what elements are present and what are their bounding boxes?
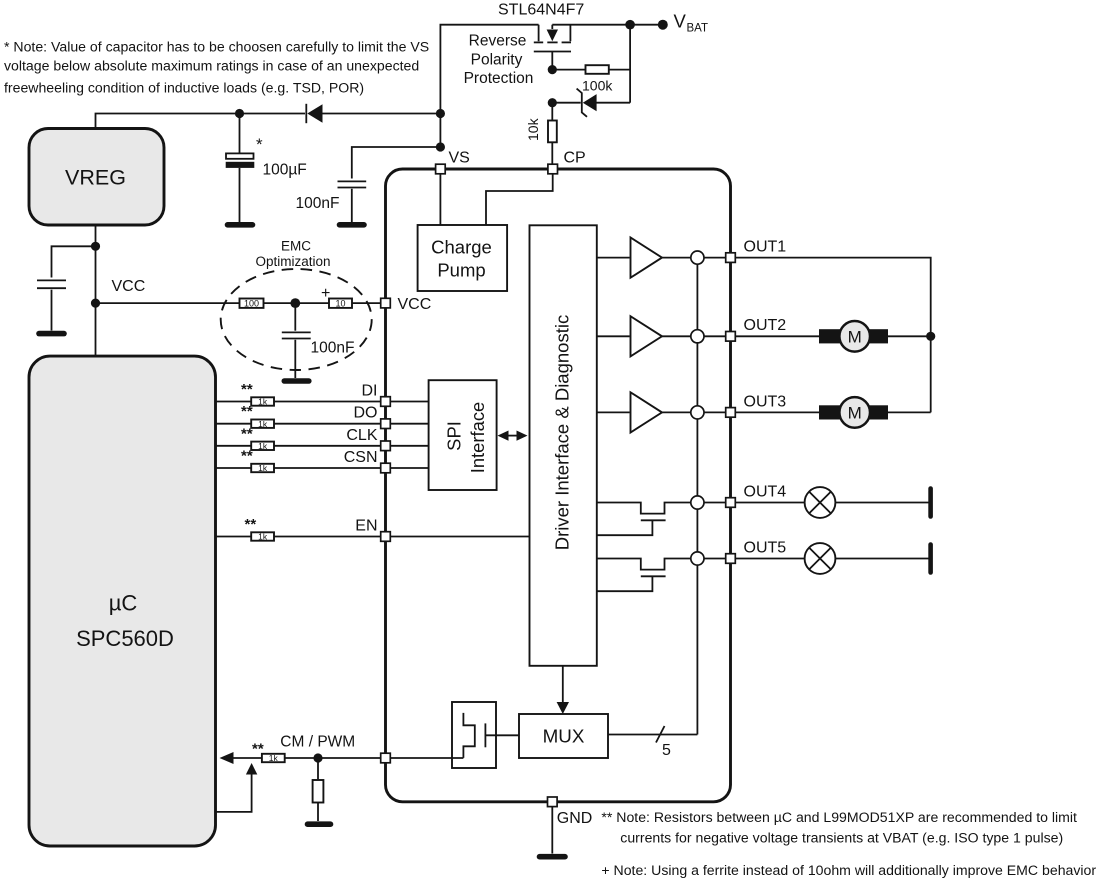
op-amp U1 main IC L99MOD51XP outline [386,169,731,802]
block SPI Interface [429,380,497,490]
svg-text:**: ** [252,741,264,758]
svg-text:VCC: VCC [112,278,146,295]
wire OUT2 circle to pin [704,335,726,337]
svg-text:+ Note: Using a ferrite instea: + Note: Using a ferrite instead of 10ohm… [601,862,1096,878]
svg-text:CLK: CLK [346,427,377,444]
svg-text:Charge: Charge [431,237,492,258]
svg-text:CSN: CSN [344,449,378,466]
block Driver Interface & Diagnostic [530,225,597,666]
diode Z1 zener [552,89,630,117]
svg-text:* Note: Value of capacitor has: * Note: Value of capacitor has to be cho… [4,39,429,55]
junction node VCC cap tap [91,242,100,251]
wire OUT5 circle to pin [704,558,726,560]
svg-text:STL64N4F7: STL64N4F7 [498,2,584,19]
junction node gate/R1 [548,65,557,74]
wire VS column up [440,25,538,147]
svg-text:OUT3: OUT3 [744,393,787,410]
svg-text:VCC: VCC [398,296,432,313]
label V_BAT [674,11,709,35]
svg-text:M: M [848,403,862,422]
capacitor C1 100uF [226,114,255,223]
lamp L1 (OUT4) [805,487,836,518]
block VREG [29,129,164,226]
ground (GND pin) [540,854,566,860]
ground (VCC cap) [39,331,64,337]
resistor R1 100k [552,65,630,74]
wire to R4 [295,302,329,304]
svg-text:Protection: Protection [464,70,534,87]
ground (100uF) [228,222,253,228]
pin EN [355,518,390,542]
wire lamp L2 to terminal [835,558,928,560]
transistor Q1 reverse polarity MOSFET [534,25,571,70]
node OUT2 monitor circle [691,330,704,343]
note: VS capacitor note text [4,39,429,96]
node OUT4 monitor circle [691,496,704,509]
wire OUT5 external [735,558,804,560]
pin CLK [346,427,390,451]
svg-text:Interface: Interface [467,402,488,474]
motor M2 (OUT3) [819,397,888,428]
svg-text:EMC: EMC [281,239,311,254]
wire diode to VS column [323,113,441,115]
svg-text:Driver Interface & Diagnostic: Driver Interface & Diagnostic [552,315,573,550]
svg-text:OUT5: OUT5 [744,539,787,556]
wire OUT3 external [735,411,820,413]
pin CP [548,150,586,174]
pin VS [436,150,470,174]
svg-text:EN: EN [355,518,377,535]
svg-text:V: V [674,11,687,32]
pin OUT3 [726,393,787,417]
EMC optimization dashed ellipse [221,269,372,370]
arrow into uC (CM/PWM) [220,752,262,764]
buffer driver OUT2 [597,316,691,356]
node OUT1 monitor circle [691,251,704,264]
wire M1 to OUT1 rail [888,335,931,337]
resistor R8 1k (CSN line) [216,448,381,474]
svg-text:currents for negative voltage: currents for negative voltage transients… [620,829,1063,845]
junction node zener [548,98,557,107]
svg-text:Pump: Pump [437,260,485,281]
junction node VS top [436,109,445,118]
svg-text:10: 10 [335,298,345,308]
svg-text:MUX: MUX [543,726,585,747]
resistor R5 1k (DI line) [216,381,381,407]
svg-text:OUT2: OUT2 [744,317,787,334]
resistor R10 1k (CM/PWM) [252,741,381,764]
transistor Q3 low-side OUT5 [597,559,691,592]
svg-text:freewheeling condition of indu: freewheeling condition of inductive load… [4,80,364,96]
junction node VBAT branch [625,20,635,30]
wire CM/PWM pin to sense box [390,757,463,759]
resistor R4 10 [329,298,381,308]
svg-text:1k: 1k [258,419,268,429]
label EMC Optimization [255,239,330,270]
svg-text:100nF: 100nF [311,340,355,357]
block Charge Pump [418,225,508,291]
svg-text:CM / PWM: CM / PWM [280,734,355,751]
wire uC feedback with up arrow [216,763,258,812]
svg-text:SPC560D: SPC560D [76,626,174,651]
pin CM/PWM [280,734,390,763]
wire OUT2 external [735,335,820,337]
pin DO [354,405,391,429]
wire GND pin down [551,807,553,854]
svg-text:100µF: 100µF [263,162,307,179]
svg-text:100k: 100k [582,78,613,94]
wire SPI to Driver double arrow [498,431,528,441]
svg-text:**: ** [241,381,253,398]
buffer driver OUT1 [597,238,691,278]
svg-text:VREG: VREG [65,166,126,190]
ground (CM/PWM pulldown) [308,821,331,827]
svg-text:Optimization: Optimization [255,254,330,269]
junction node 100uF tap [235,109,244,118]
svg-text:CP: CP [564,150,586,167]
pin GND [548,797,593,827]
svg-text:BAT: BAT [687,23,709,35]
terminal bar (OUT5) [928,545,933,573]
junction node CM/PWM [313,753,322,762]
buffer driver OUT3 [597,392,691,432]
svg-text:100: 100 [244,298,259,308]
block uC SPC560D [29,356,216,846]
junction node EMC cap [290,298,300,308]
resistor R2 10k [548,103,557,165]
svg-text:**: ** [241,448,253,465]
junction node OUT2/OUT1 rail [926,332,935,341]
svg-text:VS: VS [449,150,470,167]
wire VREG bottom to uC [95,225,97,356]
pin CSN [344,449,391,473]
note: resistor note text [601,809,1096,878]
svg-text:DI: DI [362,383,378,400]
wire monitor bus vertical [696,264,698,734]
svg-text:M: M [848,327,862,346]
terminal bar (OUT4) [928,489,933,517]
wire CP pin to charge pump [486,174,553,225]
wire CSN to SPI box [390,467,428,469]
wire MUX to monitor bus [608,734,697,736]
resistor R7 1k (CLK line) [216,425,381,451]
svg-text:100nF: 100nF [296,195,340,212]
resistor R9 1k (EN line) [216,516,381,542]
svg-text:Polarity: Polarity [471,52,523,69]
lamp L2 (OUT5) [805,543,836,574]
junction node VS branch [436,142,445,151]
wire Driver to MUX arrow [557,666,569,714]
motor M1 (OUT2) [819,321,888,352]
wire OUT4 external [735,502,804,504]
label Reverse Polarity Protection [464,33,534,88]
wire lamp L1 to terminal [835,502,928,504]
svg-text:1k: 1k [258,532,268,542]
node OUT5 monitor circle [691,552,704,565]
resistor R6 1k (DO line) [216,403,381,429]
svg-text:10k: 10k [525,117,541,141]
block MUX [519,714,608,758]
wire OUT1 circle to pin [704,257,726,259]
wire CLK to SPI box [390,445,428,447]
wire OUT3 circle to pin [704,411,726,413]
capacitor C4 100nF (EMC) [282,303,311,378]
svg-text:SPI: SPI [444,421,465,451]
pin OUT4 [726,483,787,507]
wire MOSFET source to VBAT [552,24,663,26]
bus width slash 5 [656,726,671,759]
node VBAT terminal [658,20,668,30]
transistor Q4 current monitor sense [452,702,519,768]
svg-text:OUT1: OUT1 [744,239,787,256]
svg-text:** Note: Resistors between µC: ** Note: Resistors between µC and L99MOD… [601,809,1077,825]
svg-text:*: * [256,135,263,154]
svg-text:Reverse: Reverse [469,33,527,50]
wire VREG top to diode [96,114,306,129]
svg-text:DO: DO [354,405,378,422]
pin OUT1 [726,239,787,263]
wire VBAT branch down [629,25,631,103]
svg-text:1k: 1k [258,397,268,407]
svg-text:1k: 1k [269,753,279,763]
wire VCC horizontal [96,302,240,304]
diode D1 [306,104,322,123]
svg-text:**: ** [245,516,257,533]
pin VCC [381,296,432,313]
ground (100nF VS) [340,222,365,228]
svg-text:5: 5 [662,742,671,759]
svg-text:**: ** [241,403,253,420]
wire OUT1 external [735,258,930,413]
svg-text:GND: GND [557,810,593,827]
svg-text:µC: µC [109,591,138,616]
svg-text:voltage below absolute maximum: voltage below absolute maximum ratings i… [4,57,419,73]
wire DI to SPI box [390,401,428,403]
pin DI [362,383,391,407]
wire EN to Driver box [390,536,529,538]
pin OUT2 [726,317,787,341]
wire DO to SPI box [390,423,428,425]
svg-text:OUT4: OUT4 [744,483,787,500]
wire OUT4 circle to pin [704,502,726,504]
capacitor C3 (VCC) [37,246,96,330]
pin OUT5 [726,539,787,563]
svg-text:**: ** [241,425,253,442]
transistor Q2 low-side OUT4 [597,503,691,536]
wire M2 to OUT1 rail [888,411,931,413]
wire VS pin to charge pump [439,174,441,225]
resistor R11 (CM/PWM pulldown) [313,758,324,821]
resistor R3 100 [240,298,296,308]
junction node VCC wire [91,299,100,308]
svg-text:1k: 1k [258,441,268,451]
ground (EMC cap) [284,378,309,384]
capacitor C2 100nF (VS) [338,147,441,222]
svg-text:1k: 1k [258,463,268,473]
node OUT3 monitor circle [691,406,704,419]
